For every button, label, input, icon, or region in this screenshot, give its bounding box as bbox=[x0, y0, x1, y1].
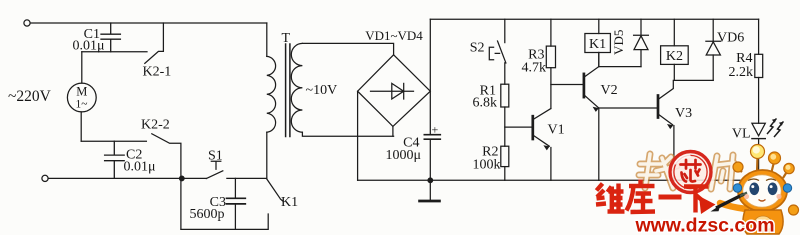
svg-text:R4: R4 bbox=[736, 51, 752, 66]
wire: motor bottom horizontal bbox=[81, 140, 146, 142]
motor M lead top bbox=[81, 52, 83, 83]
switch K2-2 bbox=[152, 134, 181, 230]
transformer T secondary winding bbox=[291, 43, 302, 132]
switch S1 bbox=[206, 161, 223, 178]
wire: bridge bottom vertex link bbox=[392, 126, 394, 136]
wire: V2 base bbox=[551, 84, 584, 86]
wire: C1 bottom / motor top horizontal bbox=[82, 51, 147, 53]
motor M lead bottom bbox=[80, 112, 82, 141]
wire: S1 to K1 junction bbox=[227, 177, 267, 179]
svg-text:VD1~VD4: VD1~VD4 bbox=[365, 28, 423, 43]
svg-text:1000μ: 1000μ bbox=[385, 148, 421, 163]
wire: bottom loop under C3 bbox=[181, 214, 268, 229]
svg-text:5600p: 5600p bbox=[190, 207, 225, 222]
bridge rectifier VD1~VD4 diamond bbox=[358, 55, 431, 127]
wire: bottom AC line bbox=[48, 177, 206, 179]
node: junction dot at ground bbox=[428, 178, 433, 183]
svg-text:6.8k: 6.8k bbox=[473, 96, 498, 111]
svg-text:V3: V3 bbox=[675, 106, 692, 121]
capacitor C2 bbox=[105, 141, 125, 178]
wire: top rail bbox=[430, 18, 758, 20]
svg-text:+: + bbox=[432, 123, 439, 137]
resistor R3 bbox=[546, 46, 555, 68]
wire: V1 base bbox=[505, 126, 533, 128]
svg-text:100k: 100k bbox=[473, 158, 501, 173]
wire: secondary top to bridge bbox=[302, 43, 393, 54]
wire: S2 to R1 bbox=[504, 63, 506, 84]
motor M circle bbox=[67, 83, 96, 112]
transistor V3 bbox=[599, 80, 674, 180]
diode VD6 bbox=[706, 19, 721, 80]
capacitor C3 bbox=[227, 178, 246, 229]
svg-text:K1: K1 bbox=[281, 195, 298, 210]
wire: bridge left vertex to ground rail bbox=[357, 91, 359, 180]
ground bbox=[420, 180, 440, 201]
node: top AC terminal bbox=[24, 20, 30, 26]
wire: R1 to R2 bbox=[504, 107, 506, 146]
watermark: red swoosh arrowhead bbox=[699, 196, 716, 214]
svg-text:www.dzsc.com: www.dzsc.com bbox=[634, 215, 774, 236]
svg-text:1~: 1~ bbox=[76, 99, 88, 111]
resistor R2 bbox=[501, 146, 509, 166]
wire: R3 to V2 base / V1 collector junction bbox=[550, 68, 552, 109]
transistor V1 bbox=[533, 109, 551, 181]
svg-text:2.2k: 2.2k bbox=[729, 65, 754, 80]
relay coil K2 bbox=[661, 19, 689, 80]
svg-text:T: T bbox=[282, 31, 291, 46]
wire: primary bottom to S1/K1 junction bbox=[266, 132, 268, 178]
svg-text:0.01μ: 0.01μ bbox=[124, 160, 156, 175]
relay coil K1 bbox=[585, 19, 611, 66]
svg-text:VL: VL bbox=[732, 127, 751, 142]
watermark: zhao chip pian outlined glyphs bbox=[639, 154, 734, 189]
watermark: weiku yixia red glyphs bbox=[596, 180, 709, 213]
wire: K2 to VD6 junction bbox=[674, 79, 713, 81]
capacitor C1 bbox=[101, 23, 120, 52]
resistor R4 bbox=[755, 19, 763, 123]
transformer T core bbox=[286, 44, 290, 137]
capacitor C4 bbox=[424, 135, 440, 140]
svg-text:K2: K2 bbox=[666, 49, 683, 64]
relay contact K1 bbox=[267, 179, 283, 201]
wire: bottom rail bbox=[358, 179, 759, 181]
switch S2 bbox=[489, 19, 506, 63]
svg-text:~10V: ~10V bbox=[306, 83, 338, 98]
diode VD5 bbox=[634, 19, 649, 66]
svg-text:M: M bbox=[76, 85, 87, 99]
svg-text:4.7k: 4.7k bbox=[522, 61, 547, 76]
wire: K1 to VD5 junction bbox=[599, 66, 641, 68]
svg-text:~220V: ~220V bbox=[8, 88, 52, 105]
svg-text:K2-1: K2-1 bbox=[143, 65, 172, 80]
switch K2-1 bbox=[145, 23, 164, 63]
svg-text:S1: S1 bbox=[208, 149, 223, 164]
watermark: red stamp ring with xin glyph bbox=[670, 152, 711, 193]
watermark: mascot bbox=[720, 145, 799, 235]
svg-text:VD5: VD5 bbox=[611, 30, 626, 55]
wire: primary riser from top line bbox=[266, 23, 268, 56]
node: junction dot at K2-2/S1 branch bbox=[180, 176, 185, 181]
resistor R1 bbox=[501, 84, 509, 107]
transistor V2 bbox=[584, 53, 599, 181]
wire: secondary bottom to bridge bbox=[302, 132, 393, 136]
svg-text:0.01μ: 0.01μ bbox=[72, 39, 104, 54]
LED VL bbox=[752, 123, 765, 180]
svg-text:V2: V2 bbox=[601, 83, 618, 98]
svg-text:VD6: VD6 bbox=[717, 31, 744, 46]
LED VL light arrows bbox=[768, 119, 784, 137]
svg-text:K2-2: K2-2 bbox=[141, 118, 170, 133]
svg-text:V1: V1 bbox=[548, 123, 565, 138]
wire: DC+ vertical through C4 bbox=[429, 19, 431, 180]
wire: top AC line bbox=[30, 22, 267, 24]
svg-text:K1: K1 bbox=[589, 37, 606, 52]
bridge rectifier inner diode bbox=[371, 83, 414, 99]
transformer T primary winding bbox=[267, 56, 276, 132]
watermark: black pen arrow over bbox=[711, 193, 748, 212]
wire: R3 branch from top rail bbox=[550, 19, 552, 46]
node: bottom AC terminal bbox=[42, 175, 48, 181]
wire: R2 to rail bbox=[504, 167, 506, 181]
svg-text:S2: S2 bbox=[470, 41, 485, 56]
